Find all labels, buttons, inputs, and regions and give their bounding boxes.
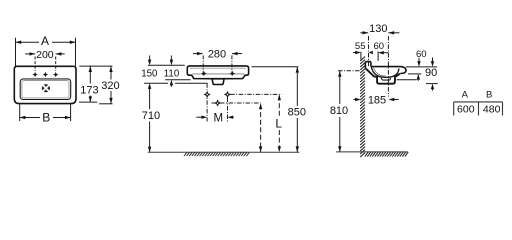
inner basin double outline: [20, 79, 70, 100]
svg-text:110: 110: [164, 68, 180, 79]
vertical dashed dimension (unlabeled, to lower centerline): [259, 103, 262, 152]
dimension 130: [360, 23, 399, 35]
wall hatch: [360, 57, 365, 157]
dimension 55: [353, 41, 373, 59]
floor line (right view): [336, 151, 408, 153]
dimension 810: [330, 71, 360, 152]
centerline 2 (drain): [387, 36, 389, 97]
svg-text:480: 480: [483, 103, 501, 115]
dimension M: [196, 112, 234, 124]
dimension L: [275, 95, 282, 153]
svg-text:200: 200: [36, 49, 54, 61]
svg-text:130: 130: [369, 23, 387, 35]
150 bottom extension line: [144, 82, 168, 84]
dimension A: [16, 34, 76, 66]
svg-text:90: 90: [425, 67, 437, 79]
dimension 110: [164, 56, 191, 87]
dimension 60 (left): [374, 41, 389, 61]
basin front view: outline: [187, 66, 248, 79]
svg-text:710: 710: [142, 110, 160, 122]
basin side profile: rim top and front bulb: [371, 67, 406, 74]
dimension 150: [141, 56, 158, 89]
svg-text:A: A: [41, 34, 49, 48]
floor hatch (right view): [365, 152, 408, 157]
tap stars on front view: [201, 71, 235, 76]
svg-text:173: 173: [80, 84, 98, 96]
floor hatch (middle view): [184, 152, 250, 156]
svg-text:M: M: [214, 112, 224, 124]
dimension 90: [425, 58, 438, 91]
drain symbol: [42, 84, 51, 93]
svg-text:150: 150: [141, 68, 158, 79]
dimension 710: [142, 89, 160, 153]
svg-text:55: 55: [355, 41, 366, 52]
dimension 185: [353, 95, 398, 107]
top reference line: [148, 64, 185, 66]
node diamonds: [205, 92, 230, 106]
svg-text:185: 185: [368, 95, 386, 107]
bowl inner line: [371, 67, 399, 78]
dimension 850: [288, 67, 306, 152]
svg-text:850: 850: [288, 107, 306, 119]
svg-text:A: A: [462, 90, 469, 101]
basin side profile: back ledge: [365, 62, 371, 68]
svg-text:B: B: [486, 90, 492, 101]
basin outer outline (top view): [14, 66, 76, 103]
svg-text:280: 280: [208, 48, 226, 60]
svg-text:60: 60: [374, 41, 385, 52]
M vertical centerline right: [227, 98, 229, 122]
dimension 200: [25, 49, 65, 71]
svg-text:320: 320: [101, 80, 119, 92]
floor line (middle view): [148, 151, 300, 153]
dimension 60 (right): [408, 49, 427, 81]
basin front view: drain trap: [212, 79, 224, 85]
svg-text:B: B: [42, 111, 50, 125]
svg-text:L: L: [275, 117, 282, 131]
dimension 173: [79, 66, 113, 102]
850 top extension: [252, 66, 299, 68]
svg-text:600: 600: [457, 103, 475, 115]
upper horizontal centerline: [230, 93, 281, 95]
dimension 320: [99, 66, 120, 104]
centerline 1 (tap): [368, 36, 370, 67]
svg-text:60: 60: [416, 49, 427, 60]
lower horizontal centerline: [212, 102, 261, 104]
M vertical centerline left: [206, 83, 208, 121]
dimension B: [20, 105, 71, 125]
tap hole stars: [32, 72, 58, 77]
rim extension line (a): [406, 66, 437, 68]
bowl bottom extension: [397, 79, 417, 81]
svg-text:810: 810: [330, 105, 348, 117]
basin side profile: underside and drain stub: [365, 68, 400, 84]
dimension 280: [193, 48, 242, 76]
